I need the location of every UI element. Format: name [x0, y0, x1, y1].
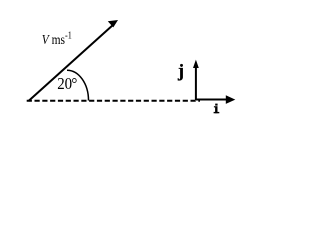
label V ms^-1 [42, 30, 72, 47]
svg-text:j: j [177, 60, 184, 80]
svg-text:20°: 20° [57, 75, 77, 93]
svg-text:V ms-1: V ms-1 [42, 30, 72, 47]
unit vector j arrowhead [193, 60, 199, 68]
unit vector i shaft [196, 99, 228, 101]
unit vector j shaft [195, 67, 197, 101]
angle arc 20 degrees [67, 70, 89, 100]
vector V arrowhead [108, 20, 118, 27]
dashed horizontal baseline [27, 100, 200, 102]
unit vector i arrowhead [226, 95, 236, 104]
label i (drawn: dot, stem with top flag, foot serif) [214, 104, 220, 114]
label 20 degrees [57, 75, 77, 93]
vector V line [29, 25, 114, 102]
